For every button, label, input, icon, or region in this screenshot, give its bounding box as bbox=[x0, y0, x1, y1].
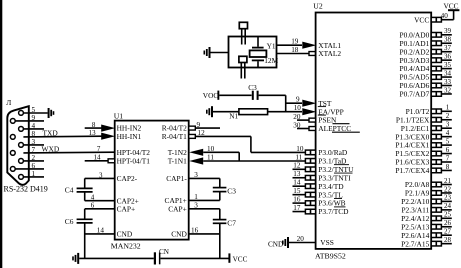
svg-text:1: 1 bbox=[194, 193, 198, 201]
svg-text:VOC: VOC bbox=[203, 91, 219, 100]
svg-text:11: 11 bbox=[295, 153, 302, 161]
svg-text:39: 39 bbox=[444, 27, 452, 35]
svg-text:19: 19 bbox=[291, 37, 299, 45]
svg-text:14: 14 bbox=[293, 179, 301, 187]
svg-text:Y1: Y1 bbox=[267, 42, 276, 51]
U2 pin 33 P0.6/AD6 bbox=[400, 78, 452, 90]
J1 pin 3 contact bbox=[19, 143, 24, 148]
svg-text:22: 22 bbox=[444, 185, 452, 193]
svg-text:TXD: TXD bbox=[43, 129, 59, 138]
U2 pin 21 P2.0/A8 bbox=[405, 177, 452, 189]
U2 EA/VPP label bbox=[318, 107, 344, 116]
svg-text:N1: N1 bbox=[229, 111, 238, 120]
svg-text:XTAL2: XTAL2 bbox=[318, 49, 341, 58]
svg-text:P1.7/CEX4: P1.7/CEX4 bbox=[395, 166, 429, 175]
svg-text:21: 21 bbox=[444, 177, 452, 185]
wire J1 pin 2 stub bbox=[23, 154, 44, 162]
svg-text:2: 2 bbox=[32, 154, 36, 162]
svg-text:10: 10 bbox=[294, 104, 302, 112]
svg-text:6: 6 bbox=[91, 202, 95, 210]
U2 pin 25 P2.4/A12 bbox=[401, 211, 452, 223]
U2 pin 12 P3.2/TNTU bbox=[293, 162, 355, 174]
svg-text:16: 16 bbox=[293, 196, 301, 204]
svg-text:T-1N1: T-1N1 bbox=[168, 157, 187, 166]
ground at J1 pin 5 bbox=[48, 108, 55, 118]
svg-text:7: 7 bbox=[32, 146, 36, 154]
U1 pin 3 CAP2- wire bbox=[85, 171, 115, 179]
crystal loop wire bbox=[229, 37, 277, 68]
svg-text:2: 2 bbox=[446, 112, 450, 120]
svg-text:40: 40 bbox=[441, 12, 449, 20]
svg-text:12: 12 bbox=[198, 129, 206, 137]
svg-text:10: 10 bbox=[207, 145, 215, 153]
svg-text:1: 1 bbox=[446, 104, 450, 112]
U2 pin 35 P0.4/AD4 bbox=[400, 61, 452, 73]
IC U1 MAN232 body bbox=[111, 111, 189, 250]
J1 pin 6 contact bbox=[10, 167, 15, 172]
U2 XTAL2 label bbox=[318, 49, 341, 58]
svg-text:MAN232: MAN232 bbox=[111, 242, 141, 251]
svg-text:C6: C6 bbox=[65, 217, 74, 226]
svg-text:CAP2-: CAP2- bbox=[117, 174, 138, 183]
svg-text:U1: U1 bbox=[114, 111, 124, 120]
U2 TST label bbox=[318, 99, 332, 108]
wire EA/VPP pin 10 bbox=[268, 104, 317, 115]
wire XTAL2 pin 18 bbox=[277, 46, 316, 56]
ground at resistor N1 bbox=[206, 106, 213, 117]
U1 pin 6 CAP+ wire bbox=[85, 202, 115, 210]
svg-text:5: 5 bbox=[446, 137, 450, 145]
svg-text:13: 13 bbox=[89, 129, 97, 137]
node VOC terminal bbox=[203, 91, 219, 100]
svg-text:9: 9 bbox=[32, 114, 36, 122]
U2 pin 32 P0.7/AD7 bbox=[400, 86, 452, 98]
svg-text:5: 5 bbox=[32, 106, 36, 114]
U2 pin 15 P3.5/TL bbox=[293, 187, 344, 199]
U2 pin 24 P2.3/A11 bbox=[401, 202, 451, 214]
svg-text:Л: Л bbox=[6, 98, 11, 107]
svg-text:11: 11 bbox=[207, 154, 214, 162]
U1 pin 14 HPT-04/T1 wire bbox=[85, 153, 115, 162]
svg-text:7: 7 bbox=[446, 154, 450, 162]
wire VOC to capacitor C3 bbox=[219, 94, 251, 96]
svg-text:9: 9 bbox=[197, 121, 201, 129]
svg-text:20: 20 bbox=[293, 113, 301, 121]
svg-text:15: 15 bbox=[293, 187, 301, 195]
svg-text:9: 9 bbox=[296, 96, 300, 104]
svg-text:CND: CND bbox=[117, 230, 133, 239]
svg-text:1: 1 bbox=[32, 170, 36, 178]
ground at crystal bbox=[204, 47, 229, 58]
J1 pin 8 contact bbox=[10, 135, 15, 140]
svg-text:C3: C3 bbox=[248, 83, 257, 92]
svg-text:HH-IN1: HH-IN1 bbox=[117, 132, 142, 141]
resistor N1 bbox=[213, 109, 268, 121]
U2 pin 36 P0.3/AD3 bbox=[400, 52, 452, 64]
U2 pin 4 P1.3/CEX0 bbox=[395, 129, 451, 141]
U2 pin 40 VCC wire bbox=[414, 12, 454, 24]
U2 pin 6 P1.5/CEX2 bbox=[395, 146, 451, 158]
svg-text:R-04/T1: R-04/T1 bbox=[162, 132, 187, 141]
crystal Y1 12M bbox=[250, 37, 279, 68]
U2 pin 13 P3.3/TNTI bbox=[293, 170, 352, 182]
svg-text:13: 13 bbox=[293, 170, 301, 178]
U1 pin 14 CND wire (left) bbox=[85, 226, 115, 234]
U1 pin 3 CAP1- wire bbox=[189, 171, 220, 179]
wire XTAL1 pin 19 bbox=[277, 37, 317, 48]
wire WXD J1 pin 7 to U1 pin 7 HPT-04/T2 bbox=[23, 145, 114, 155]
wire TXD J1 pin 8 to U1 pin 13 HH-IN1 bbox=[23, 129, 115, 140]
IC U2 ATB9S52 body bbox=[313, 2, 431, 261]
power VCC rail top right bbox=[444, 2, 460, 20]
wire U1 pin 11 T-1N1 to U2 pin 11 P3.1 bbox=[189, 154, 305, 165]
capacitor C4 bbox=[65, 178, 93, 200]
svg-text:CN: CN bbox=[159, 248, 170, 256]
svg-text:28: 28 bbox=[444, 236, 452, 244]
svg-text:U2: U2 bbox=[313, 2, 323, 11]
svg-text:P3.7/TCD: P3.7/TCD bbox=[318, 207, 349, 216]
capacitor C6 bbox=[65, 209, 93, 259]
U2 pin 8 P1.7/CEX4 bbox=[395, 163, 451, 175]
svg-text:P2.7/A15: P2.7/A15 bbox=[401, 239, 429, 248]
svg-text:VCC: VCC bbox=[414, 15, 429, 24]
svg-text:26: 26 bbox=[444, 219, 452, 227]
U2 pin 34 P0.5/AD5 bbox=[400, 69, 452, 81]
svg-text:8: 8 bbox=[32, 130, 36, 138]
ground at bottom rail bbox=[72, 253, 79, 264]
U2 pin 20 VSS wire bbox=[289, 235, 334, 247]
svg-text:14: 14 bbox=[97, 226, 105, 234]
svg-text:RS-232 D419: RS-232 D419 bbox=[4, 185, 48, 194]
svg-text:27: 27 bbox=[444, 228, 452, 236]
connector J1 RS-232 D419 body bbox=[4, 98, 48, 193]
U2 pin 5 P1.4/CEX1 bbox=[395, 137, 451, 149]
U2 pin 28 P2.7/A15 bbox=[401, 236, 452, 248]
svg-text:3: 3 bbox=[194, 202, 198, 210]
J1 pin 4 contact bbox=[19, 126, 24, 131]
U2 pin 3 P1.2/EC1 bbox=[401, 121, 452, 133]
capacitor C3 (reset) bbox=[248, 83, 257, 100]
U1 pin 4 CAP2+ wire bbox=[85, 193, 115, 201]
svg-text:6: 6 bbox=[32, 162, 36, 170]
svg-text:7: 7 bbox=[97, 145, 101, 153]
capacitor C7 bbox=[213, 209, 236, 259]
U2 pin 26 P2.5/A13 bbox=[401, 219, 452, 231]
svg-text:4: 4 bbox=[91, 193, 95, 201]
svg-text:CND: CND bbox=[171, 230, 187, 239]
J1 pin 7 contact bbox=[10, 151, 15, 156]
svg-text:32: 32 bbox=[444, 86, 452, 94]
svg-text:3: 3 bbox=[32, 138, 36, 146]
U2 pin 1 P1.0/T2 bbox=[406, 104, 452, 116]
svg-text:T-1N2: T-1N2 bbox=[168, 148, 187, 157]
U2 pin 22 P2.1/A9 bbox=[405, 185, 452, 197]
J1 pin 5 contact bbox=[19, 111, 24, 116]
svg-text:33: 33 bbox=[444, 78, 452, 86]
svg-text:CND: CND bbox=[268, 240, 283, 248]
U2 pin 27 P2.6/A14 bbox=[401, 228, 452, 240]
wire U1 pin 12 R-04/T1 to U2 pin 10 P3.0 bbox=[189, 129, 305, 152]
svg-text:VSS: VSS bbox=[320, 238, 334, 247]
svg-text:35: 35 bbox=[444, 61, 452, 69]
U2 pin 23 P2.2/A10 bbox=[401, 194, 452, 206]
U2 pin 7 P1.6/CEX3 bbox=[395, 154, 451, 166]
svg-text:CAP+: CAP+ bbox=[117, 204, 136, 213]
wire J1 pin 5 to ground bbox=[23, 106, 47, 114]
wire TST pin 9 bbox=[286, 96, 317, 107]
wire J1 pin 9 stub bbox=[15, 114, 44, 122]
wire C3 to RST junction bbox=[259, 95, 286, 111]
wire U1 pin 10 T-1N2 bbox=[189, 145, 239, 161]
U2 XTAL1 label bbox=[318, 41, 341, 50]
J1 pin 2 contact bbox=[19, 159, 24, 164]
svg-text:20: 20 bbox=[297, 235, 305, 243]
svg-text:CAP+: CAP+ bbox=[168, 204, 187, 213]
svg-text:C4: C4 bbox=[65, 186, 74, 195]
wire bottom rail bbox=[79, 257, 228, 259]
svg-text:3: 3 bbox=[99, 171, 103, 179]
wire J1 pin 4 stub bbox=[23, 122, 44, 130]
svg-text:4: 4 bbox=[32, 122, 36, 130]
svg-text:17: 17 bbox=[293, 204, 301, 212]
U2 pin 11 P3.1/TaD bbox=[295, 153, 349, 165]
J1 pin 9 contact bbox=[10, 119, 15, 124]
svg-text:37: 37 bbox=[444, 44, 452, 52]
capacitor CN bbox=[154, 248, 170, 265]
capacitor C2 (bottom, at crystal) bbox=[239, 56, 247, 78]
svg-text:6: 6 bbox=[446, 146, 450, 154]
svg-text:12M: 12M bbox=[264, 56, 278, 65]
ground CND at U2 VSS bbox=[268, 237, 289, 248]
svg-text:36: 36 bbox=[444, 52, 452, 60]
svg-text:WXD: WXD bbox=[42, 145, 60, 154]
svg-text:CAP1-: CAP1- bbox=[166, 174, 187, 183]
svg-text:ATB9S52: ATB9S52 bbox=[315, 252, 346, 261]
U1 pin 16 CND wire (right) bbox=[189, 226, 220, 234]
capacitor C1 (top, at crystal) bbox=[239, 22, 247, 44]
svg-text:3: 3 bbox=[194, 171, 198, 179]
U2 pin 2 P1.1/T2EX bbox=[396, 112, 452, 124]
svg-text:18: 18 bbox=[291, 46, 299, 54]
svg-text:C3: C3 bbox=[227, 186, 236, 195]
U2 pin 38 P0.1/AD1 bbox=[400, 36, 452, 48]
J1 pin 1 contact bbox=[19, 175, 24, 180]
svg-text:16: 16 bbox=[191, 226, 199, 234]
svg-text:10: 10 bbox=[296, 145, 304, 153]
wire J1 pin 3 stub bbox=[23, 138, 44, 146]
svg-text:VCC: VCC bbox=[233, 255, 248, 263]
svg-text:23: 23 bbox=[444, 194, 452, 202]
U2 pin 10 P3.0/RaD bbox=[296, 145, 348, 157]
power VCC terminal at bottom rail bbox=[228, 253, 247, 263]
U2 pin 17 P3.7/TCD bbox=[293, 204, 350, 216]
U2 pin 30 ALEPTCC bbox=[293, 121, 360, 133]
svg-text:38: 38 bbox=[444, 36, 452, 44]
U2 pin 37 P0.2/AD2 bbox=[400, 44, 452, 56]
svg-text:HPT-04/T1: HPT-04/T1 bbox=[117, 156, 151, 165]
svg-text:8: 8 bbox=[446, 163, 450, 171]
svg-text:4: 4 bbox=[446, 129, 450, 137]
svg-text:25: 25 bbox=[444, 211, 452, 219]
U2 pin 14 P3.4/TD bbox=[293, 179, 345, 191]
svg-text:30: 30 bbox=[293, 121, 301, 129]
svg-text:3: 3 bbox=[446, 121, 450, 129]
wire J1 pin 1 stub bbox=[23, 170, 44, 178]
svg-text:P0.7/AD7: P0.7/AD7 bbox=[400, 90, 430, 99]
svg-text:24: 24 bbox=[444, 202, 452, 210]
U1 pin 9 R-04/T2 wire bbox=[189, 121, 220, 130]
svg-text:C7: C7 bbox=[227, 218, 236, 227]
U2 pin 20 PSEN bbox=[293, 113, 349, 125]
svg-text:12: 12 bbox=[293, 162, 301, 170]
U1 pin 1 CAP1+ wire bbox=[189, 193, 220, 201]
svg-text:34: 34 bbox=[444, 69, 452, 77]
wire J1 pin 6 stub bbox=[15, 162, 44, 170]
capacitor C3 (charge pump) bbox=[213, 178, 236, 200]
svg-text:14: 14 bbox=[94, 153, 102, 161]
U2 pin 39 P0.0/AD0 bbox=[400, 27, 452, 39]
svg-text:VCC: VCC bbox=[444, 2, 459, 11]
svg-text:8: 8 bbox=[92, 121, 96, 129]
U1 pin 8 HH-IN2 wire bbox=[85, 121, 116, 132]
U1 pin 3 CAP+ wire (right) bbox=[189, 202, 220, 210]
U2 pin 16 P3.6/WB bbox=[293, 196, 346, 208]
